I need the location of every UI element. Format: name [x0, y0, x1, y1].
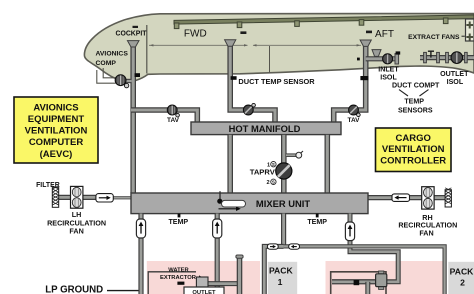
wire: tee to pack2 supply — [284, 246, 445, 294]
filter LH — [36, 182, 60, 207]
RH recirc duct — [368, 195, 446, 200]
duct compt temp sensor mark (aft riser) — [360, 76, 368, 80]
avionics equipment thin lines — [97, 68, 116, 83]
mixer trim air flow symbol — [217, 191, 245, 211]
duct hanger tab 2 — [237, 22, 242, 28]
dimension line — [149, 44, 361, 46]
svg-text:VENTILATION: VENTILATION — [382, 144, 445, 155]
svg-text:LP GROUND: LP GROUND — [45, 284, 103, 294]
wire: mid temp sensor drop — [215, 214, 220, 294]
svg-text:S: S — [272, 180, 275, 185]
label AVIONICS COMP — [96, 50, 129, 67]
svg-text:CONTROLLER: CONTROLLER — [380, 156, 446, 167]
temp sensor mid — [213, 219, 222, 238]
label FWD — [184, 29, 207, 40]
svg-text:OUTLET: OUTLET — [440, 70, 469, 78]
water extractor enclosure line — [148, 272, 196, 294]
svg-text:2: 2 — [460, 278, 465, 288]
svg-text:EXTRACT FANS: EXTRACT FANS — [408, 34, 460, 41]
svg-text:TEMP: TEMP — [168, 218, 188, 226]
temp sensor left — [136, 219, 145, 238]
wire: TAPRV drop manifold to mixer — [281, 135, 287, 193]
label LH RECIRCULATION FAN — [47, 210, 106, 236]
svg-text:AVIONICS: AVIONICS — [96, 50, 129, 57]
box CARGO VENTILATION CONTROLLER — [376, 128, 452, 172]
svg-text:PACK: PACK — [450, 267, 474, 277]
check valve pack1 — [267, 244, 278, 249]
svg-text:COCKPIT: COCKPIT — [115, 30, 147, 37]
water extractor capped stub — [236, 255, 243, 294]
avionics extract fan — [115, 75, 131, 88]
svg-text:(AEVC): (AEVC) — [40, 149, 73, 160]
svg-text:WATER: WATER — [168, 268, 189, 274]
duct hanger tab 4 — [359, 20, 364, 26]
svg-text:1: 1 — [267, 162, 270, 168]
duct hanger tab 3 — [295, 21, 300, 27]
label COCKPIT — [115, 30, 147, 37]
valve TAPRV — [250, 162, 292, 187]
svg-text:EXTRACTOR: EXTRACTOR — [160, 275, 197, 281]
svg-text:TAPRV: TAPRV — [250, 168, 276, 177]
wire: cockpit riser (main left duct) — [127, 41, 139, 193]
temp sensor right — [345, 222, 354, 241]
wire: mixer to pack tee — [281, 214, 286, 247]
ceiling distribution duct — [174, 15, 474, 24]
TAPRV branch pressure sensor — [286, 151, 303, 158]
svg-text:AFT: AFT — [375, 29, 394, 40]
svg-text:FILTER: FILTER — [36, 182, 60, 189]
duct temp sensor mark (cockpit riser) — [135, 73, 140, 77]
svg-text:COMPUTER: COMPUTER — [29, 137, 84, 148]
LH recirc duct — [57, 195, 132, 201]
LP ground connection — [45, 284, 138, 294]
svg-text:AVIONICS: AVIONICS — [33, 102, 78, 113]
svg-text:COMP: COMP — [96, 60, 117, 67]
svg-text:MIXER UNIT: MIXER UNIT — [256, 198, 310, 209]
check valve RH — [392, 194, 410, 202]
svg-text:TAV: TAV — [167, 117, 180, 124]
box PACK 1 — [268, 262, 297, 294]
wire: left temp sensor drop — [138, 214, 143, 294]
svg-text:S: S — [272, 162, 275, 167]
svg-text:2: 2 — [267, 180, 270, 186]
svg-text:PACK: PACK — [269, 265, 294, 275]
svg-text:VENTILATION: VENTILATION — [25, 126, 88, 137]
box AEVC — [14, 97, 98, 163]
fuselage body — [84, 14, 474, 82]
svg-text:TEMP: TEMP — [307, 218, 327, 226]
check valve pack2 — [289, 244, 300, 249]
svg-text:DUCT COMPT: DUCT COMPT — [392, 82, 440, 90]
svg-text:1: 1 — [278, 277, 283, 287]
filter RH — [445, 188, 451, 207]
svg-text:CARGO: CARGO — [396, 133, 431, 144]
valve TAV left — [167, 105, 180, 124]
svg-text:FWD: FWD — [184, 29, 207, 40]
pack bay branch down — [365, 282, 370, 294]
cabin dash mark cockpit — [133, 26, 139, 28]
svg-text:FAN: FAN — [419, 228, 433, 237]
svg-text:ISOL: ISOL — [447, 78, 464, 86]
svg-text:EQUIPMENT: EQUIPMENT — [28, 114, 85, 125]
cabin dash mark fwd — [240, 31, 246, 34]
label EXTRACT FANS with leader — [408, 34, 465, 41]
svg-text:FAN: FAN — [69, 227, 83, 236]
wire: mid riser to TAV branch into manifold — [225, 40, 275, 123]
svg-text:TEMP: TEMP — [404, 98, 424, 106]
label INLET ISOL — [378, 65, 399, 81]
label WATER EXTRACTOR — [160, 268, 202, 282]
valve TAV mid — [243, 103, 255, 115]
svg-text:INLET: INLET — [378, 65, 399, 73]
black junction pack bay — [354, 280, 360, 285]
pack bay inner enclosure — [331, 272, 386, 294]
svg-text:OUTLET: OUTLET — [192, 290, 216, 294]
label OUTLET ISOL — [440, 70, 469, 86]
inlet isol branch — [357, 50, 400, 64]
temp probe tick right — [316, 214, 319, 218]
extract fans box top right — [466, 19, 474, 41]
wire: aft riser to TAV branch into manifold — [334, 40, 372, 123]
wire: manifold to mixer right drop — [324, 135, 330, 193]
box MIXER UNIT — [131, 193, 368, 214]
black mark water extractor — [177, 282, 184, 285]
water extractor pipe A — [207, 281, 240, 286]
outlet isol group — [420, 51, 474, 63]
pink zone pack bay — [326, 261, 447, 294]
pack flow control valve — [376, 271, 387, 289]
box PACK 2 — [448, 262, 474, 294]
wire: right temp sensor drop and pack loop — [332, 214, 398, 282]
svg-text:TAV: TAV — [347, 117, 360, 124]
svg-text:DUCT TEMP SENSOR: DUCT TEMP SENSOR — [238, 77, 315, 86]
valve TAV right — [347, 105, 360, 124]
label TEMP left — [168, 218, 188, 226]
duct temp sensor mark (mid riser) — [231, 76, 237, 80]
svg-text:ISOL: ISOL — [380, 74, 397, 82]
mid cargo divider — [269, 46, 271, 73]
duct hanger tab 5 — [443, 18, 448, 24]
label AFT — [375, 29, 394, 40]
label RH RECIRCULATION FAN — [398, 213, 457, 238]
water extractor unit — [196, 277, 208, 287]
fan RH recirculation — [422, 187, 434, 209]
label TEMP right — [307, 218, 327, 226]
wire: tee to pack1 — [264, 246, 283, 294]
cockpit divider — [146, 25, 148, 74]
svg-text:HOT MANIFOLD: HOT MANIFOLD — [229, 123, 301, 134]
label DUCT COMPT TEMP SENSORS with leaders — [392, 82, 440, 115]
svg-text:LH: LH — [72, 210, 82, 219]
duct hanger tab 1 — [174, 23, 179, 29]
box HOT MANIFOLD — [191, 122, 341, 135]
wire: TAV left branch — [131, 110, 197, 123]
label DUCT TEMP SENSOR — [238, 77, 315, 86]
temp probe tick left — [178, 214, 181, 218]
pack bay pipe — [332, 279, 376, 284]
wire: manifold to mixer left drop — [227, 135, 233, 193]
svg-text:SENSORS: SENSORS — [398, 107, 433, 115]
fan LH recirculation — [71, 186, 83, 208]
outlet box — [184, 287, 224, 294]
cabin dash mark aft — [366, 31, 372, 34]
check valve LH — [96, 194, 113, 202]
pink zone water extractor bay — [147, 261, 260, 294]
